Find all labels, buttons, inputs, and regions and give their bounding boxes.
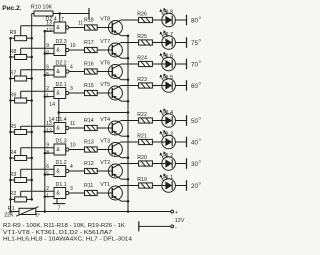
svg-text:0: 0 bbox=[199, 117, 201, 121]
scale bar mark 40 degrees bbox=[186, 137, 188, 148]
wire VT4 collector to R22 bbox=[121, 120, 139, 122]
resistor R25 1K bbox=[137, 34, 152, 45]
wire R12 to VT2 base bbox=[97, 170, 112, 172]
svg-text:&: & bbox=[56, 147, 60, 153]
wire VT3 collector to R21 bbox=[121, 141, 139, 143]
logic gate D1.3 bbox=[45, 139, 69, 156]
svg-text:R25: R25 bbox=[137, 34, 147, 40]
wire VT5 collector to R23 bbox=[121, 85, 139, 87]
wire VT8 emitter to +12V rail bbox=[121, 35, 128, 37]
scale bar mark 75 degrees bbox=[186, 37, 188, 48]
resistor R7 100K (ladder) bbox=[10, 70, 32, 81]
node R6 left rail junction bbox=[9, 99, 12, 102]
svg-text:&: & bbox=[56, 169, 60, 175]
wire D1.1 pin 7 stub and bus bar bbox=[53, 199, 66, 212]
svg-text:R7: R7 bbox=[10, 70, 17, 76]
label temperature 50 degrees bbox=[191, 117, 201, 125]
svg-text:4: 4 bbox=[70, 64, 73, 70]
logic gate D1.4 bbox=[45, 117, 69, 134]
wire HL3 to scale bar bbox=[175, 141, 186, 143]
svg-text:&: & bbox=[56, 191, 60, 197]
logic gate D1.2 bbox=[45, 160, 69, 177]
wire R19 to HL1 bbox=[152, 185, 161, 187]
wire HL8 to scale bar bbox=[175, 19, 186, 21]
svg-text:&: & bbox=[56, 69, 60, 75]
wire +12V bottom rail bbox=[45, 211, 171, 213]
node R4 left rail junction bbox=[9, 157, 12, 160]
wire R21 to HL3 bbox=[152, 141, 161, 143]
wire D2.1 output pin 3 to R15 bbox=[69, 86, 85, 93]
node R3 left rail junction bbox=[9, 179, 12, 182]
svg-text:R24: R24 bbox=[137, 56, 147, 62]
svg-text:30: 30 bbox=[191, 161, 198, 168]
wire D2.3 output pin 10 to R17 bbox=[69, 43, 85, 50]
node R2 left rail junction bbox=[9, 198, 12, 201]
scale bar mark 70 degrees bbox=[186, 59, 188, 70]
wire HL5 to scale bar bbox=[175, 85, 186, 87]
node +12V rail / emitter rail junction bbox=[127, 210, 130, 213]
svg-text:7: 7 bbox=[58, 205, 61, 211]
resistor R11 10K bbox=[84, 183, 97, 196]
wire HL6 to scale bar bbox=[175, 63, 186, 65]
svg-text:60: 60 bbox=[191, 83, 198, 90]
svg-text:70: 70 bbox=[191, 61, 198, 68]
wire tap R8 to gate input bbox=[21, 48, 54, 54]
wire VT2 collector to R20 bbox=[121, 163, 139, 165]
resistor R21 1K bbox=[137, 134, 152, 145]
wire ladder left rail bbox=[10, 38, 12, 211]
wire tap R7 to gate input bbox=[21, 70, 54, 76]
minus bus bar (bottom) bbox=[138, 221, 140, 231]
wire tap R9 to gate input bbox=[21, 26, 54, 36]
svg-text:VT7: VT7 bbox=[100, 39, 110, 45]
wire VT5 emitter to +12V rail bbox=[121, 100, 128, 102]
svg-text:R9: R9 bbox=[10, 30, 17, 36]
node D2.4 lower input junction on bus bbox=[44, 30, 47, 32]
node junction R10 wire / D2.4 pin 7 bbox=[58, 12, 61, 15]
svg-text:+: + bbox=[175, 210, 178, 216]
resistor R16 10K bbox=[84, 61, 97, 74]
svg-text:0: 0 bbox=[199, 82, 201, 86]
svg-text:HL1-HL6,HL8 - 10AWA4XC, HL7 -: HL1-HL6,HL8 - 10AWA4XC, HL7 - DFL-3014 bbox=[3, 237, 132, 243]
svg-text:VT2: VT2 bbox=[100, 160, 110, 166]
resistor R3 100K (ladder) bbox=[10, 172, 32, 183]
transistor VT7 KT361 (PNP) bbox=[100, 39, 122, 58]
svg-text:&: & bbox=[56, 91, 60, 97]
wire R18 to VT8 base bbox=[97, 27, 112, 29]
resistor R23 1K bbox=[137, 77, 152, 88]
wire D2.4 pin 7 stub bbox=[60, 14, 64, 23]
svg-text:&: & bbox=[56, 126, 60, 132]
node VT6 emitter junction bbox=[127, 78, 130, 81]
wire R14 to VT4 base bbox=[97, 127, 112, 129]
label temperature 70 degrees bbox=[191, 60, 201, 68]
svg-text:2: 2 bbox=[46, 86, 49, 92]
wire VT6 emitter to +12V rail bbox=[121, 79, 128, 81]
label temperature 80 degrees bbox=[191, 16, 201, 24]
label figure title Рис.2. bbox=[2, 5, 22, 12]
svg-text:R11: R11 bbox=[84, 183, 93, 189]
svg-text:R3: R3 bbox=[10, 172, 17, 178]
node D1.2 lower input junction on bus bbox=[44, 173, 47, 176]
svg-text:50: 50 bbox=[191, 118, 198, 125]
node R2 right rail junction bbox=[30, 198, 33, 201]
resistor R2 100K (ladder) bbox=[10, 191, 32, 202]
wire R10 to minus bus bar bbox=[53, 13, 89, 15]
svg-text:&: & bbox=[56, 25, 60, 31]
node R6 right rail junction bbox=[30, 99, 33, 102]
LED HL3 bbox=[160, 130, 176, 149]
LED HL4 bbox=[160, 108, 176, 127]
resistor R17 10K bbox=[84, 40, 97, 53]
node VT7 emitter junction bbox=[127, 57, 130, 60]
resistor R26 1K bbox=[137, 12, 152, 23]
wire minus terminal bbox=[139, 225, 171, 227]
svg-text:VT4: VT4 bbox=[100, 117, 110, 123]
resistor R6 100K (ladder) bbox=[10, 92, 32, 103]
label caption line 2 bbox=[3, 230, 112, 236]
svg-text:R20: R20 bbox=[137, 155, 147, 161]
svg-text:R6: R6 bbox=[10, 92, 17, 98]
resistor R15 10K bbox=[84, 83, 97, 96]
svg-text:12: 12 bbox=[46, 128, 52, 134]
svg-text:VT1: VT1 bbox=[100, 182, 110, 188]
resistor R12 10K bbox=[84, 161, 97, 174]
label temperature 20 degrees bbox=[191, 182, 201, 190]
wire R11 to VT1 base bbox=[97, 192, 112, 194]
wire R20 to HL2 bbox=[152, 163, 161, 165]
node R3 right rail junction bbox=[30, 179, 33, 182]
scale bar mark 30 degrees bbox=[186, 158, 188, 169]
node VT5 emitter junction bbox=[127, 100, 130, 103]
label temperature 75 degrees bbox=[191, 39, 201, 47]
wire VT3 emitter to +12V rail bbox=[121, 157, 128, 159]
scale bar mark 50 degrees bbox=[186, 115, 188, 126]
resistor R24 1K bbox=[137, 56, 152, 67]
transistor VT4 KT361 (PNP) bbox=[100, 117, 122, 136]
node pin14 wire rail junction bbox=[127, 111, 130, 114]
scale bar mark 20 degrees bbox=[186, 180, 188, 191]
resistor R22 1K bbox=[137, 112, 152, 123]
wire tap R2 to gate input bbox=[21, 191, 54, 197]
node D1.4 lower input junction on bus bbox=[44, 130, 47, 133]
wire VT7 collector to R25 bbox=[121, 42, 139, 44]
label temperature 40 degrees bbox=[191, 138, 201, 146]
transistor VT6 KT361 (PNP) bbox=[100, 61, 122, 80]
node D2.2 lower input junction on bus bbox=[44, 74, 47, 77]
node R7 left rail junction bbox=[9, 77, 12, 80]
LED HL2 bbox=[160, 151, 176, 170]
svg-text:10: 10 bbox=[70, 43, 76, 49]
svg-text:0: 0 bbox=[199, 138, 201, 142]
svg-text:R18: R18 bbox=[84, 17, 94, 23]
wire HL4 to scale bar bbox=[175, 120, 186, 122]
svg-text:4: 4 bbox=[70, 164, 73, 170]
wire D1.2 output pin 4 to R12 bbox=[69, 164, 85, 171]
wire D1.1 output pin 3 to R11 bbox=[69, 186, 85, 193]
svg-text:VT3: VT3 bbox=[100, 139, 110, 145]
svg-text:R4: R4 bbox=[10, 150, 17, 156]
wire emitter rail to +12V bbox=[127, 36, 129, 212]
logic gate D2.3 bbox=[45, 39, 69, 56]
wire HL7 to scale bar bbox=[175, 42, 186, 44]
resistor R18 10K bbox=[84, 17, 97, 30]
wire ladder right rail bbox=[31, 14, 33, 200]
svg-text:0: 0 bbox=[199, 60, 201, 64]
node VT1 emitter junction bbox=[127, 200, 130, 203]
svg-text:2: 2 bbox=[46, 186, 49, 192]
wire R16 to VT6 base bbox=[97, 71, 112, 73]
resistor R19 1K bbox=[137, 177, 152, 188]
svg-text:0: 0 bbox=[199, 39, 201, 43]
svg-text:80: 80 bbox=[191, 17, 198, 24]
svg-text:R12: R12 bbox=[84, 161, 94, 167]
terminal + supply bbox=[171, 210, 178, 216]
node VT3 emitter junction bbox=[127, 156, 130, 159]
svg-text:8: 8 bbox=[46, 50, 49, 56]
svg-text:9: 9 bbox=[46, 43, 49, 49]
svg-text:9: 9 bbox=[46, 143, 49, 149]
transistor VT5 KT361 (PNP) bbox=[100, 82, 122, 101]
resistor R10 10K bbox=[31, 4, 53, 16]
node R9 right rail junction bbox=[30, 37, 33, 40]
logic gate D2.1 bbox=[45, 82, 69, 99]
wire VT1 collector to R19 bbox=[121, 185, 139, 187]
svg-text:3: 3 bbox=[70, 86, 73, 92]
svg-text:R23: R23 bbox=[137, 77, 147, 83]
wire VT2 emitter to +12V rail bbox=[121, 178, 128, 180]
svg-text:10: 10 bbox=[70, 142, 76, 148]
wire D1.4 output pin 11 to R14 bbox=[69, 121, 85, 128]
svg-text:R17: R17 bbox=[84, 40, 94, 46]
svg-text:12V: 12V bbox=[175, 218, 185, 224]
svg-text:13: 13 bbox=[46, 21, 52, 27]
node VT8 emitter junction bbox=[127, 34, 130, 37]
wire tap R6 to gate input bbox=[21, 91, 54, 98]
node D1.3 lower input junction on bus bbox=[44, 152, 47, 155]
wire R13 to VT3 base bbox=[97, 149, 112, 151]
wire D2.1 pin 14 stub bbox=[49, 99, 59, 113]
svg-text:75: 75 bbox=[191, 40, 198, 47]
svg-text:20: 20 bbox=[191, 183, 198, 190]
svg-text:0: 0 bbox=[199, 160, 201, 164]
wire HL2 to scale bar bbox=[175, 163, 186, 165]
wire HL1 to scale bar bbox=[175, 185, 186, 187]
wire R17 to VT7 base bbox=[97, 49, 112, 51]
node D1.1 lower input junction on bus bbox=[44, 195, 47, 198]
wire R24 to HL6 bbox=[152, 63, 161, 65]
wire R26 to HL8 bbox=[152, 19, 161, 21]
logic gate D2.2 bbox=[45, 61, 69, 78]
svg-text:R8: R8 bbox=[10, 49, 17, 55]
terminal - supply bbox=[171, 225, 177, 231]
node bus / bottom rail junction bbox=[44, 210, 47, 213]
svg-text:Рис.2.: Рис.2. bbox=[2, 5, 22, 12]
svg-text:1: 1 bbox=[46, 193, 49, 199]
resistor R8 100K (ladder) bbox=[10, 49, 32, 60]
node D2.1 lower input junction on bus bbox=[44, 95, 47, 98]
svg-text:R15: R15 bbox=[84, 83, 94, 89]
wire R22 to HL4 bbox=[152, 120, 161, 122]
svg-text:14: 14 bbox=[49, 102, 55, 108]
svg-text:R26: R26 bbox=[137, 12, 147, 18]
svg-text:R22: R22 bbox=[137, 112, 147, 118]
wire VT4 emitter to +12V rail bbox=[121, 135, 128, 137]
LED HL8 bbox=[160, 8, 176, 27]
LED HL7 bbox=[160, 30, 176, 49]
svg-text:5: 5 bbox=[46, 72, 49, 78]
resistor R14 10K bbox=[84, 118, 97, 131]
thermistor R1 22K bbox=[4, 206, 45, 219]
svg-text:40: 40 bbox=[191, 139, 198, 146]
wire R23 to HL5 bbox=[152, 85, 161, 87]
svg-text:&: & bbox=[56, 48, 60, 54]
svg-text:11: 11 bbox=[78, 20, 83, 26]
node R8 right rail junction bbox=[30, 56, 33, 59]
svg-text:6: 6 bbox=[46, 65, 49, 71]
wire R15 to VT5 base bbox=[97, 92, 112, 94]
wire D1.3 output pin 10 to R13 bbox=[69, 142, 85, 149]
svg-text:R5: R5 bbox=[10, 124, 17, 130]
svg-text:R19: R19 bbox=[137, 177, 147, 183]
label temperature 60 degrees bbox=[191, 82, 201, 90]
node R7 right rail junction bbox=[30, 77, 33, 80]
logic gate D2.4 bbox=[45, 17, 69, 34]
wire D2 pin 14 / D1 pin 14 to +12V rail bbox=[59, 112, 128, 114]
svg-text:R10 10K: R10 10K bbox=[31, 4, 53, 10]
transistor VT3 KT361 (PNP) bbox=[100, 139, 122, 158]
wire VT6 collector to R24 bbox=[121, 63, 139, 65]
svg-text:R21: R21 bbox=[137, 134, 147, 140]
svg-text:R14: R14 bbox=[84, 118, 94, 124]
transistor VT8 KT361 (PNP) bbox=[100, 17, 122, 36]
wire gate input bus to +12V bbox=[44, 31, 46, 211]
svg-text:VT1-VT8 - KT361, D1,D2 - K561Л: VT1-VT8 - KT361, D1,D2 - K561ЛА7 bbox=[3, 230, 112, 236]
svg-text:3: 3 bbox=[70, 186, 73, 192]
node VT4 emitter junction bbox=[127, 135, 130, 138]
LED HL6 bbox=[160, 52, 176, 71]
svg-text:0: 0 bbox=[199, 182, 201, 186]
svg-text:t°: t° bbox=[36, 213, 39, 219]
svg-text:VT5: VT5 bbox=[100, 82, 110, 88]
label caption line 1 bbox=[3, 223, 125, 229]
svg-text:R2: R2 bbox=[10, 191, 17, 197]
svg-text:1: 1 bbox=[46, 93, 49, 99]
wire D2.2 output pin 4 to R16 bbox=[69, 64, 85, 71]
wire VT1 emitter to +12V rail bbox=[121, 200, 128, 202]
node VT2 emitter junction bbox=[127, 178, 130, 181]
svg-text:R16: R16 bbox=[84, 61, 94, 67]
label temperature 30 degrees bbox=[191, 160, 201, 168]
svg-text:11: 11 bbox=[70, 121, 75, 127]
LED HL5 bbox=[160, 73, 176, 92]
svg-text:VT6: VT6 bbox=[100, 61, 110, 67]
svg-text:R13: R13 bbox=[84, 139, 94, 145]
resistor R20 1K bbox=[137, 155, 152, 166]
wire tap R4 to gate input bbox=[21, 148, 54, 156]
wire R25 to HL7 bbox=[152, 42, 161, 44]
resistor R4 100K (ladder) bbox=[10, 150, 32, 161]
node D2.3 lower input junction on bus bbox=[44, 52, 47, 55]
resistor R13 10K bbox=[84, 139, 97, 152]
svg-text:0: 0 bbox=[199, 16, 201, 20]
transistor VT1 KT361 (PNP) bbox=[100, 182, 122, 201]
svg-text:12: 12 bbox=[46, 28, 52, 34]
label caption line 3 bbox=[3, 237, 132, 243]
transistor VT2 KT361 (PNP) bbox=[100, 160, 122, 179]
wire VT7 emitter to +12V rail bbox=[121, 57, 128, 59]
node R5 right rail junction bbox=[30, 131, 33, 134]
wire D2.4 output pin 11 to R18 bbox=[69, 20, 85, 27]
svg-text:13: 13 bbox=[46, 121, 52, 127]
wire VT8 collector to R26 bbox=[121, 19, 139, 21]
node R4 right rail junction bbox=[30, 157, 33, 160]
wire tap R5 to gate input bbox=[21, 126, 54, 129]
node pin14 wire left junction bbox=[58, 111, 61, 114]
label 12V bbox=[175, 218, 185, 224]
resistor R5 100K (ladder) bbox=[10, 124, 32, 135]
svg-text:5: 5 bbox=[46, 171, 49, 177]
svg-text:VT8: VT8 bbox=[100, 17, 110, 23]
svg-text:6: 6 bbox=[46, 164, 49, 170]
svg-text:8: 8 bbox=[46, 150, 49, 156]
svg-text:R2-R9 - 100K, R11-R18 - 10K,: R2-R9 - 100K, R11-R18 - 10K, R19-R26 - 1… bbox=[3, 223, 125, 229]
LED HL1 bbox=[160, 173, 176, 192]
scale bar mark 80 degrees bbox=[186, 15, 188, 26]
node R5 left rail junction bbox=[9, 131, 12, 134]
node R8 left rail junction bbox=[9, 56, 12, 59]
node R9 left rail junction bbox=[9, 37, 12, 40]
minus bus bar (top) bbox=[88, 8, 90, 20]
resistor R9 100K (ladder) bbox=[10, 30, 32, 41]
wire tap R3 to gate input bbox=[21, 169, 54, 177]
scale bar mark 60 degrees bbox=[186, 80, 188, 91]
logic gate D1.1 bbox=[45, 182, 69, 199]
node R1 left lead on rail bbox=[9, 210, 12, 213]
svg-text:22K: 22K bbox=[4, 212, 14, 218]
wire D1.4 pin 14 stub bbox=[49, 113, 59, 124]
